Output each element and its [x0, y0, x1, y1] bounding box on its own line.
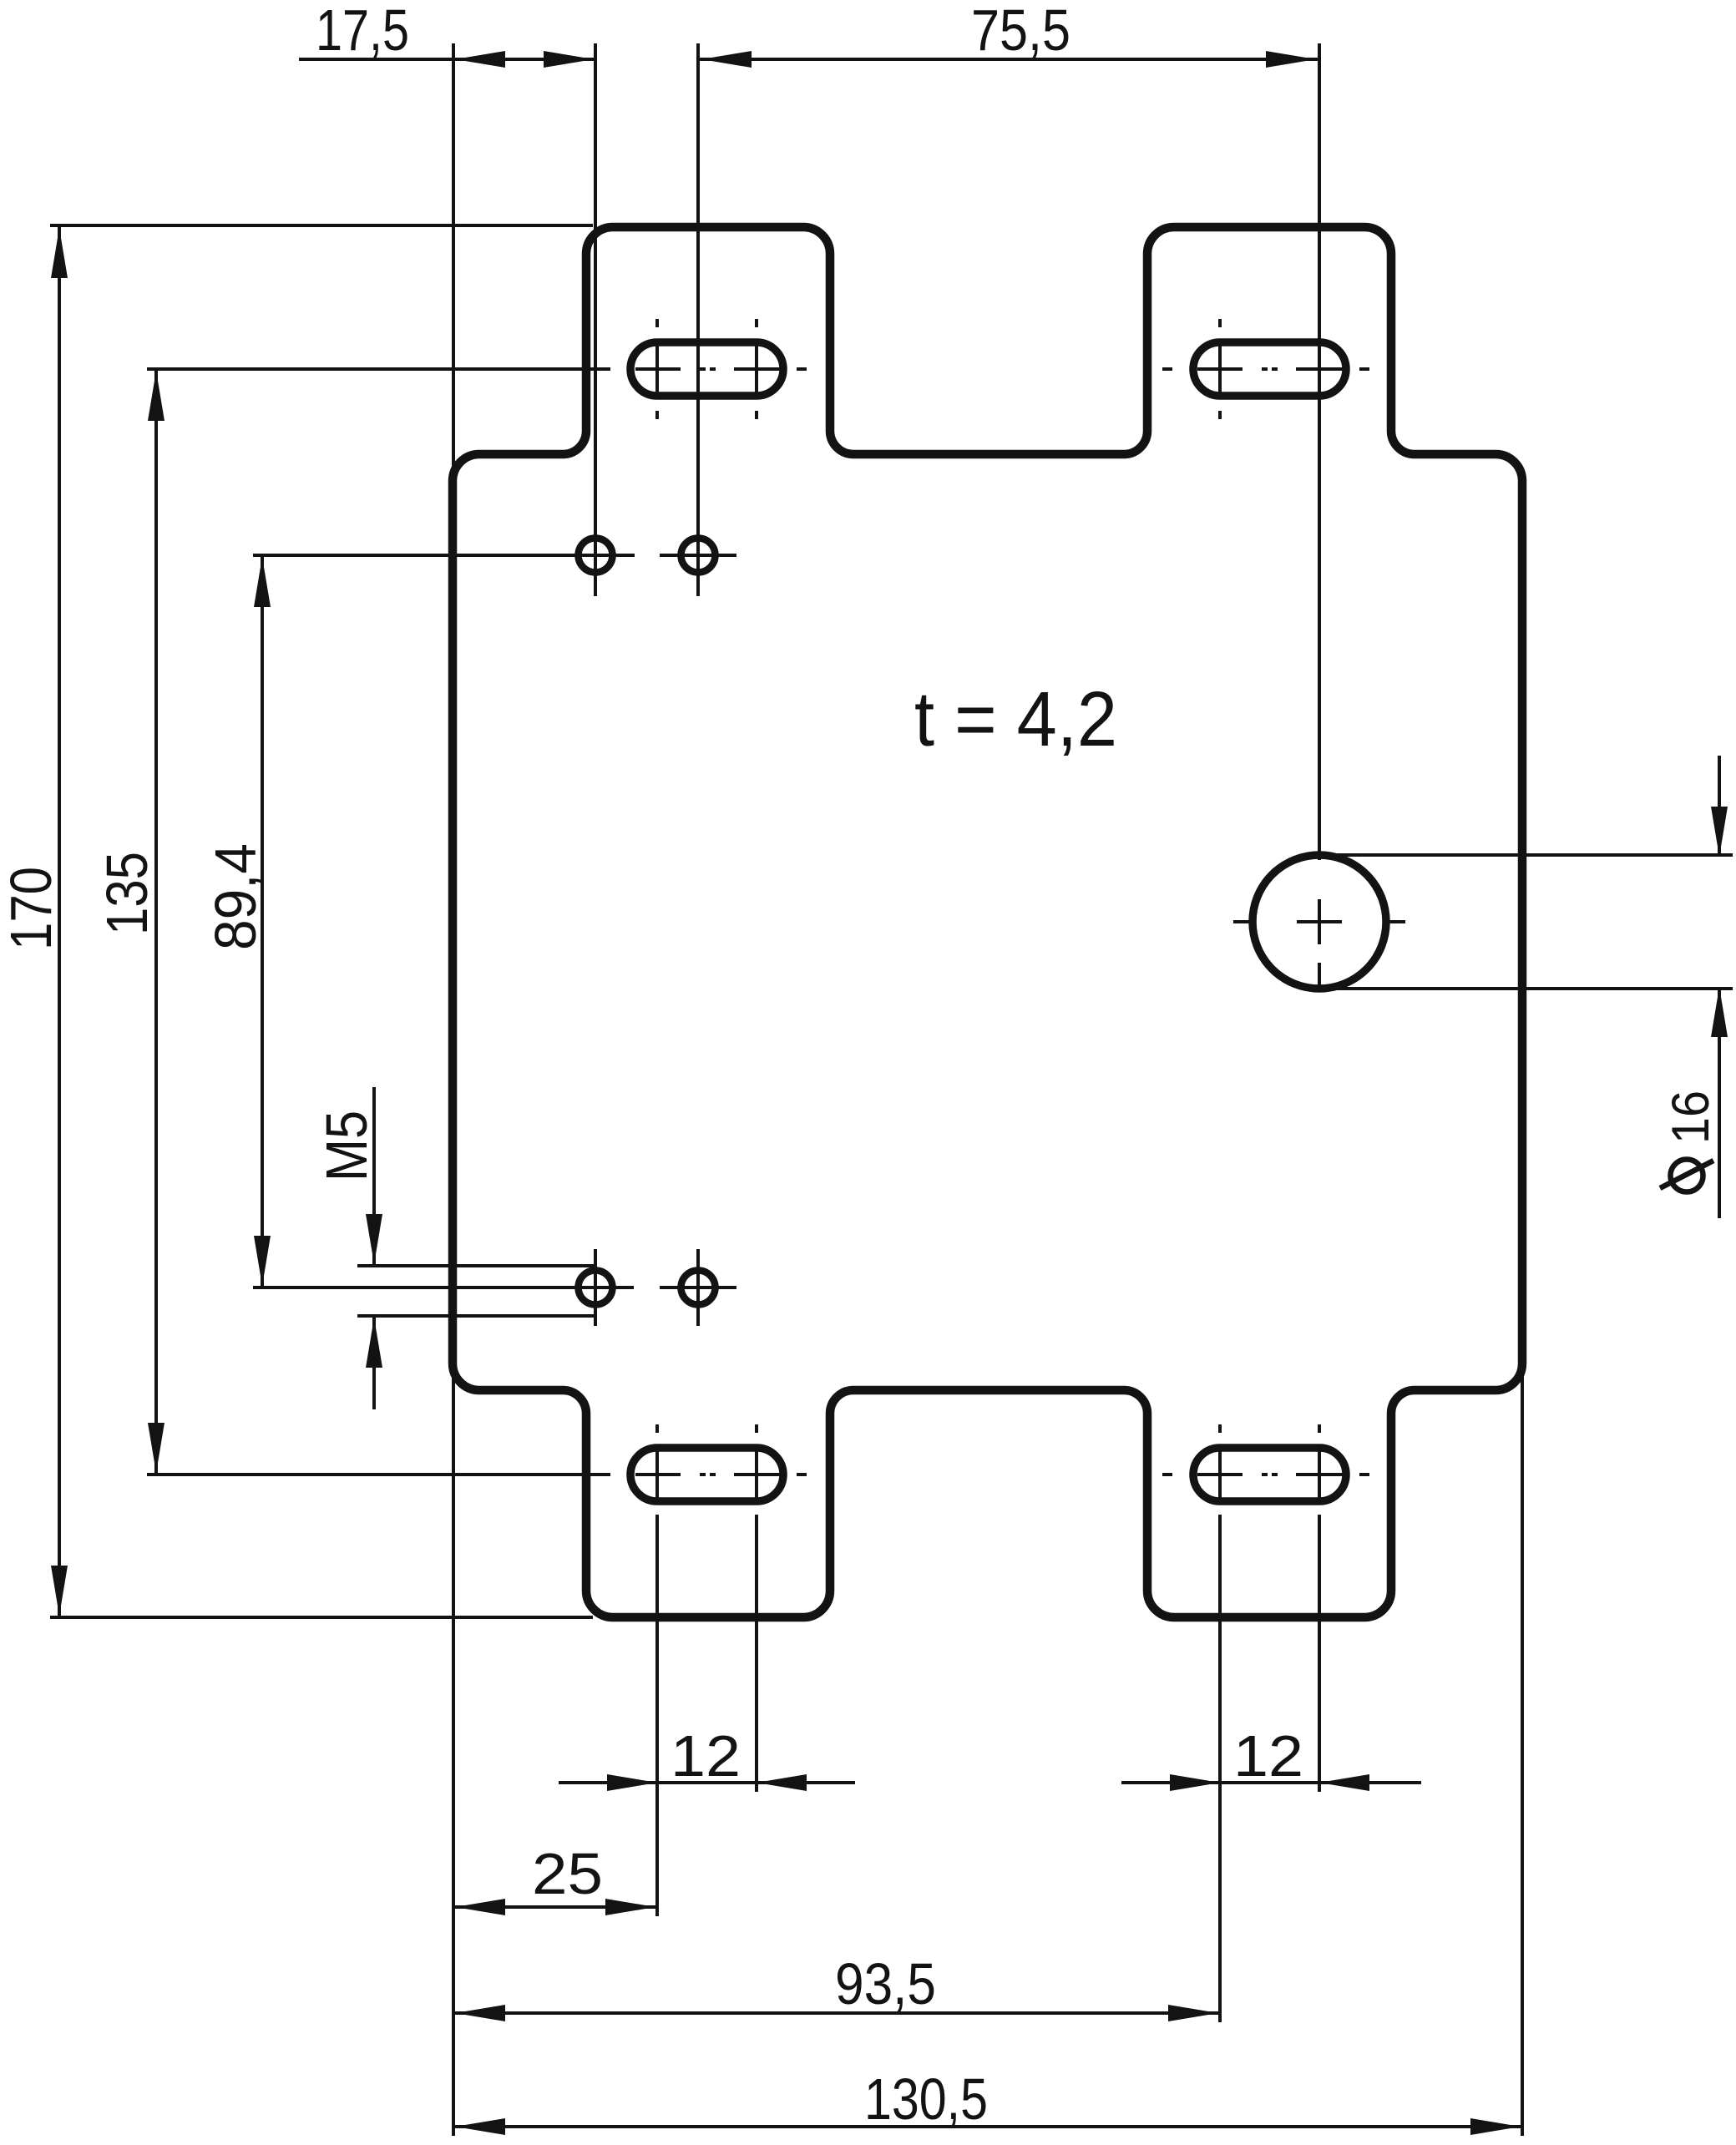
svg-text:16: 16	[1662, 1090, 1720, 1144]
dimension 12 left	[559, 1723, 855, 1791]
svg-text:17,5: 17,5	[316, 0, 409, 63]
centerlines circle D16	[1233, 899, 1405, 985]
extension line hole col 1	[594, 43, 597, 596]
dimension 93,5	[453, 1951, 1220, 2021]
plate outline	[453, 227, 1522, 1617]
extension line plate top	[50, 224, 593, 227]
slot bottom-left	[630, 1448, 783, 1501]
dimension 25	[453, 1841, 657, 1915]
extension line hole row bottom	[253, 1286, 559, 1289]
extension line hole col 2	[696, 43, 700, 596]
extension line plate bottom	[50, 1616, 593, 1619]
hole M5 top-left	[579, 539, 613, 573]
centerlines hole bottom-right	[660, 1249, 736, 1326]
centerlines hole bottom-left	[557, 1249, 634, 1326]
svg-text:M5: M5	[314, 1110, 379, 1181]
hole circle D16	[1253, 855, 1386, 989]
slot top-right	[1193, 342, 1346, 396]
extension line slot bottom center	[147, 1473, 610, 1476]
slot top-left	[630, 342, 783, 396]
svg-text:170: 170	[0, 867, 63, 950]
svg-text:12: 12	[671, 1723, 741, 1788]
centerlines slot bottom-left	[600, 1424, 807, 1498]
centerlines hole top-right	[660, 554, 736, 557]
dimension 89,4	[203, 555, 271, 1287]
extension line slot c2 bottom	[755, 1515, 758, 1792]
dimension 170	[0, 226, 68, 1617]
svg-text:12: 12	[1233, 1723, 1303, 1788]
extension line slot right c2 bottom	[1318, 1515, 1321, 1792]
centerlines slot bottom-right	[1162, 1424, 1369, 1498]
dimension 130,5	[453, 2067, 1522, 2135]
hole M5 bottom-right	[681, 1271, 716, 1305]
dimension 17,5	[299, 0, 595, 68]
extension line circle center	[1318, 43, 1321, 860]
extension line slot top center	[147, 367, 610, 371]
svg-text:t = 4,2: t = 4,2	[914, 675, 1117, 762]
svg-text:93,5: 93,5	[835, 1951, 936, 2016]
dimension M5	[314, 1087, 594, 1409]
extension line plate left edge	[452, 43, 455, 2136]
svg-text:130,5: 130,5	[864, 2067, 988, 2132]
svg-text:25: 25	[532, 1841, 603, 1906]
dimension 12 right	[1121, 1723, 1421, 1791]
extension line hole row top	[253, 554, 559, 557]
svg-text:75,5: 75,5	[971, 0, 1070, 63]
extension line slot c1 bottom	[655, 1515, 659, 1916]
dimension 75,5	[700, 0, 1318, 68]
svg-text:135: 135	[94, 852, 159, 935]
hole M5 bottom-left	[579, 1271, 613, 1305]
dimension D16	[1319, 756, 1733, 1218]
centerlines hole top-left	[557, 554, 635, 557]
extension line slot right c1 bottom	[1218, 1515, 1222, 2022]
dimension 135	[94, 369, 164, 1475]
centerlines slot top-left	[600, 319, 807, 419]
svg-text:89,4: 89,4	[203, 843, 268, 950]
hole M5 top-right	[681, 539, 716, 573]
extension line plate right edge	[1521, 1357, 1524, 2136]
slot bottom-right	[1193, 1448, 1346, 1501]
centerlines slot top-right	[1162, 319, 1369, 419]
